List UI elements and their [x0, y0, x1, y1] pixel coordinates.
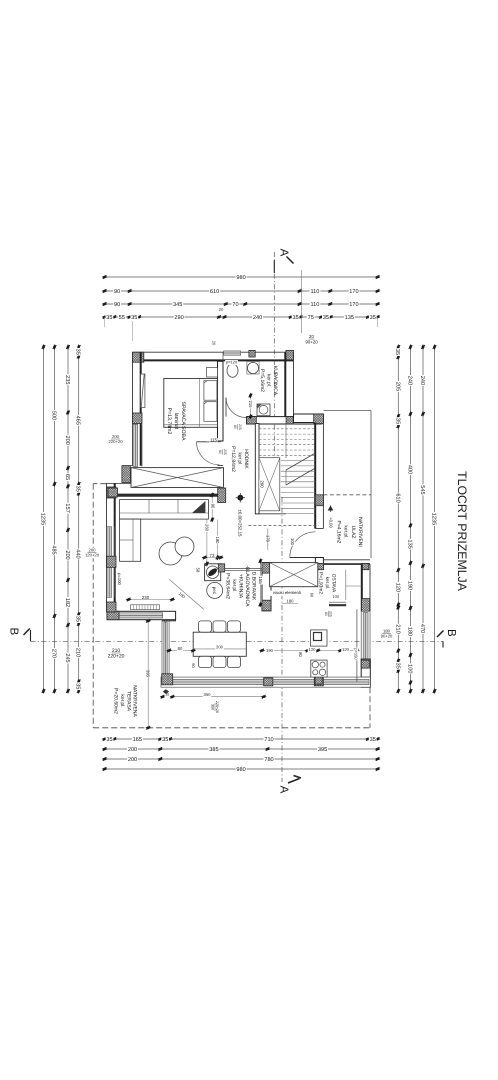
- svg-text:P=5,16m2: P=5,16m2: [259, 369, 265, 392]
- svg-text:485: 485: [51, 545, 57, 554]
- svg-text:HODNIK: HODNIK: [243, 449, 249, 469]
- svg-text:180: 180: [383, 628, 391, 633]
- svg-text:180: 180: [287, 598, 295, 603]
- svg-text:80: 80: [233, 425, 237, 429]
- svg-text:ker.pl.: ker.pl.: [343, 525, 349, 538]
- svg-text:180: 180: [407, 627, 413, 636]
- svg-text:170: 170: [349, 289, 358, 295]
- svg-text:290: 290: [174, 315, 183, 321]
- svg-text:200: 200: [128, 747, 137, 753]
- svg-text:ULAZ: ULAZ: [350, 526, 356, 539]
- svg-text:KUPAONICA: KUPAONICA: [272, 366, 278, 396]
- svg-text:p=120: p=120: [226, 359, 238, 364]
- svg-text:100: 100: [332, 594, 339, 599]
- svg-text:220+20: 220+20: [215, 701, 219, 713]
- svg-text:610: 610: [210, 289, 219, 295]
- svg-text:±0,00=252,15: ±0,00=252,15: [238, 510, 243, 538]
- svg-text:240: 240: [419, 376, 425, 385]
- svg-text:220+20: 220+20: [108, 439, 123, 444]
- svg-text:ker.pl.: ker.pl.: [266, 374, 272, 387]
- svg-text:110: 110: [310, 302, 319, 308]
- svg-text:laminat: laminat: [173, 413, 179, 430]
- svg-text:350: 350: [210, 704, 214, 710]
- svg-text:A: A: [278, 786, 290, 794]
- svg-text:205: 205: [394, 382, 400, 391]
- svg-text:35: 35: [370, 315, 376, 321]
- svg-text:p=150: p=150: [353, 648, 358, 660]
- svg-text:200: 200: [64, 550, 70, 559]
- svg-text:TLOCRT PRIZEMLJA: TLOCRT PRIZEMLJA: [455, 471, 469, 592]
- svg-text:35: 35: [394, 349, 400, 355]
- svg-text:120: 120: [309, 647, 317, 652]
- svg-text:135: 135: [407, 540, 413, 549]
- svg-text:20: 20: [309, 334, 314, 339]
- svg-text:270: 270: [51, 649, 57, 658]
- svg-text:200: 200: [216, 645, 224, 650]
- svg-text:120: 120: [394, 583, 400, 592]
- svg-text:35: 35: [162, 737, 168, 743]
- svg-text:205: 205: [223, 449, 227, 455]
- svg-text:-BLAGOVAONICA: -BLAGOVAONICA: [244, 565, 250, 607]
- svg-text:B: B: [445, 629, 457, 637]
- svg-text:B: B: [7, 627, 19, 635]
- svg-text:190: 190: [407, 581, 413, 590]
- svg-text:135: 135: [345, 315, 354, 321]
- svg-text:OSTAVA: OSTAVA: [330, 574, 336, 593]
- svg-text:35: 35: [370, 737, 376, 743]
- svg-text:35: 35: [394, 418, 400, 424]
- svg-text:190: 190: [266, 648, 274, 653]
- svg-text:P=12,84m2: P=12,84m2: [230, 446, 236, 472]
- svg-text:35: 35: [75, 349, 81, 355]
- svg-text:80: 80: [324, 612, 328, 616]
- svg-text:170: 170: [349, 302, 358, 308]
- svg-text:P=1,93m2: P=1,93m2: [318, 572, 324, 594]
- svg-text:35: 35: [75, 486, 81, 492]
- svg-text:210: 210: [75, 648, 81, 657]
- svg-text:200: 200: [112, 434, 120, 439]
- svg-text:90: 90: [114, 289, 120, 295]
- svg-text:ker.pl.: ker.pl.: [231, 579, 237, 592]
- svg-text:180: 180: [215, 537, 220, 545]
- svg-text:A: A: [277, 249, 289, 257]
- svg-text:P=20,60m2: P=20,60m2: [113, 688, 119, 714]
- svg-text:220+20: 220+20: [108, 654, 125, 660]
- svg-text:545: 545: [419, 485, 425, 494]
- svg-text:610: 610: [394, 493, 400, 502]
- svg-text:205: 205: [329, 611, 333, 617]
- svg-text:240: 240: [253, 315, 262, 321]
- svg-text:205: 205: [238, 424, 242, 430]
- svg-text:20: 20: [212, 341, 217, 346]
- svg-text:1235: 1235: [40, 513, 46, 525]
- svg-text:780: 780: [264, 757, 273, 763]
- svg-text:NATKRIVENI: NATKRIVENI: [357, 517, 363, 547]
- svg-text:35: 35: [75, 616, 81, 622]
- svg-text:75: 75: [308, 315, 314, 321]
- svg-text:ker.pl.: ker.pl.: [119, 694, 125, 707]
- svg-text:465: 465: [75, 416, 81, 425]
- svg-text:P=38,64m2: P=38,64m2: [225, 573, 231, 599]
- svg-text:35: 35: [323, 315, 329, 321]
- svg-text:345: 345: [173, 302, 182, 308]
- svg-text:100: 100: [290, 538, 295, 546]
- svg-text:980: 980: [236, 767, 245, 773]
- svg-text:200: 200: [89, 547, 97, 552]
- svg-text:440: 440: [75, 549, 81, 558]
- svg-text:60: 60: [191, 663, 196, 668]
- svg-text:110: 110: [310, 289, 319, 295]
- svg-text:90+20: 90+20: [381, 634, 393, 639]
- svg-text:90+20: 90+20: [305, 339, 318, 344]
- svg-text:NATKRIVENA: NATKRIVENA: [132, 685, 138, 717]
- svg-text:90: 90: [211, 504, 216, 509]
- svg-text:90: 90: [114, 302, 120, 308]
- svg-text:385: 385: [209, 747, 218, 753]
- svg-text:215: 215: [248, 401, 253, 409]
- svg-text:80: 80: [178, 646, 183, 651]
- svg-text:120: 120: [342, 647, 350, 652]
- svg-text:260: 260: [259, 480, 264, 488]
- svg-text:SPAVAĆA SOBA: SPAVAĆA SOBA: [180, 402, 187, 441]
- svg-text:P=4,16m2: P=4,16m2: [336, 521, 342, 544]
- svg-text:35: 35: [75, 683, 81, 689]
- svg-text:35: 35: [394, 663, 400, 669]
- svg-text:245: 245: [64, 653, 70, 662]
- svg-text:visoki elementi: visoki elementi: [273, 590, 301, 595]
- svg-text:165: 165: [133, 737, 142, 743]
- svg-text:60: 60: [309, 593, 314, 598]
- svg-text:peć: peć: [212, 587, 217, 595]
- svg-text:155: 155: [258, 576, 263, 584]
- svg-text:470: 470: [419, 624, 425, 633]
- svg-text:980: 980: [236, 275, 245, 281]
- svg-text:500: 500: [51, 411, 57, 420]
- svg-text:90: 90: [218, 450, 222, 454]
- svg-text:157: 157: [64, 503, 70, 512]
- svg-text:200: 200: [64, 436, 70, 445]
- svg-text:p=100: p=100: [117, 573, 122, 585]
- svg-text:35: 35: [292, 315, 298, 321]
- svg-text:ker.pl.: ker.pl.: [237, 452, 243, 465]
- svg-text:710: 710: [264, 737, 273, 743]
- svg-text:20: 20: [219, 307, 224, 312]
- svg-text:65: 65: [64, 474, 70, 480]
- svg-text:395: 395: [318, 747, 327, 753]
- svg-text:ker.pl.: ker.pl.: [324, 577, 330, 590]
- svg-text:182: 182: [64, 598, 70, 607]
- svg-text:100: 100: [407, 664, 413, 673]
- svg-text:TERASA: TERASA: [125, 691, 131, 712]
- svg-text:+0,00: +0,00: [328, 517, 333, 528]
- svg-text:70: 70: [232, 302, 238, 308]
- svg-text:400: 400: [406, 465, 412, 474]
- svg-text:58: 58: [195, 568, 200, 573]
- svg-text:200: 200: [128, 757, 137, 763]
- svg-text:235: 235: [64, 375, 70, 384]
- svg-text:55: 55: [119, 315, 125, 321]
- svg-text:120+20: 120+20: [85, 553, 100, 558]
- svg-text:240: 240: [406, 376, 412, 385]
- svg-text:210: 210: [394, 624, 400, 633]
- svg-text:80: 80: [298, 652, 303, 657]
- svg-text:350: 350: [204, 692, 212, 697]
- svg-text:P=13,74m2: P=13,74m2: [166, 408, 172, 435]
- svg-text:260: 260: [204, 524, 209, 532]
- svg-text:1235: 1235: [431, 513, 437, 525]
- svg-text:D.BORAVAK: D.BORAVAK: [251, 572, 257, 601]
- svg-text:35: 35: [131, 315, 137, 321]
- svg-text:35: 35: [106, 737, 112, 743]
- svg-text:+KUHINJA: +KUHINJA: [238, 574, 244, 599]
- svg-text:35: 35: [106, 315, 112, 321]
